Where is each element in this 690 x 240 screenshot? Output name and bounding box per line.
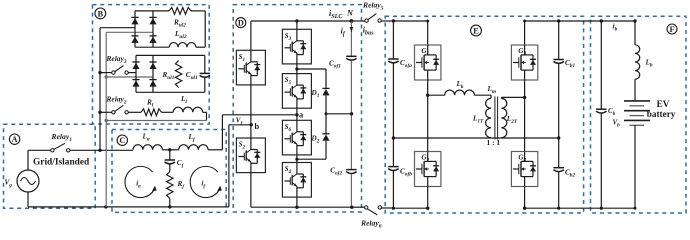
label Cb2: [565, 169, 575, 179]
wire E bottom rail secondary side (to F): [524, 207, 635, 209]
wire E top rail secondary side (to F): [524, 20, 635, 22]
wire S2 to bottom rail: [250, 173, 252, 208]
svg-text:battery: battery: [647, 109, 676, 119]
wire clamp mid to DC midpoint: [326, 113, 352, 115]
node junction clamp mid: [325, 112, 328, 115]
wire a-riser from Lf up: [221, 115, 223, 150]
wire D top rail: [251, 20, 352, 22]
wire relay2 to Rl: [128, 111, 141, 113]
label ib: [613, 22, 618, 33]
wire G1 column top: [426, 20, 429, 46]
svg-text:B: B: [98, 9, 104, 18]
capacitor Cb (battery side): [596, 109, 606, 113]
diode bridge (load 2) right branch: [149, 11, 156, 47]
wire load bus x2 (return): [105, 32, 107, 207]
region label B circled: [95, 8, 106, 19]
capacitor Cofa: [388, 59, 398, 63]
resistor Rul2: [169, 8, 191, 15]
wire F left rail lower: [600, 113, 602, 208]
label ibus: [363, 25, 374, 36]
label Vb: [613, 119, 621, 129]
wire x1 to relay3: [98, 71, 112, 74]
label Relay1: [51, 132, 73, 143]
wire E left rail mid: [392, 63, 394, 166]
wire relay6 to E bottom rail: [382, 207, 394, 209]
capacitor Cb2: [554, 168, 564, 172]
label Rl: [146, 99, 154, 109]
label Lul2: [174, 30, 187, 40]
wire relay1 to node (grid feed): [70, 149, 100, 151]
label La: [142, 133, 150, 143]
node junction bottom rail / load bus x2: [104, 205, 107, 208]
wire x2 to bridge2 lower AC terminal: [106, 31, 153, 33]
wire x1 to bridge2 upper AC terminal: [100, 27, 135, 29]
inductor Lf: [179, 145, 208, 150]
diode bridge (load 1) right branch: [149, 55, 156, 92]
svg-text:F: F: [669, 25, 674, 34]
wire b-riser from bottom rail: [228, 125, 230, 207]
node junction DC bus bottom: [350, 206, 353, 209]
capacitor Cf: [165, 150, 175, 164]
node junction DC midpoint: [350, 112, 353, 115]
wire E mid rail (winding bottoms): [393, 137, 558, 139]
wire relay5 to E top rail: [381, 20, 393, 22]
region label A circled: [9, 134, 19, 144]
transistor G4 (MOSFET box): [511, 152, 537, 187]
label Relay2: [106, 95, 127, 106]
node junction S4 bottom: [295, 206, 298, 209]
node junction top rail mid-leg: [295, 19, 298, 22]
wire Cb bus top: [557, 19, 560, 59]
label Relay5: [362, 0, 384, 11]
node N junction: [350, 19, 354, 23]
wire S1 column top: [250, 21, 252, 50]
wire clamp branch lower (D2 to S6S4 junction): [295, 143, 326, 161]
wire secondary top to right leg mid: [501, 97, 524, 98]
wire E left rail lower: [392, 171, 395, 210]
inductor Lul2: [169, 43, 196, 48]
wire G3 column top: [523, 20, 526, 46]
wire F left rail upper: [600, 21, 602, 109]
label Cof1: [329, 59, 341, 69]
diode bridge (load 2) left branch: [131, 11, 138, 47]
wire Lf to a-riser: [208, 149, 222, 151]
label Vg: [5, 179, 13, 189]
label Relay6: [360, 219, 382, 230]
transformer primary winding L1T: [486, 98, 491, 137]
capacitor Cul1: [200, 55, 210, 92]
loop current if (filter): [190, 166, 222, 197]
node junction primary leg midpoint: [426, 94, 429, 97]
wire G1 to mid node: [427, 80, 429, 152]
label Rul1: [162, 71, 175, 81]
wire Rl to Ll: [162, 111, 174, 113]
wire E top rail primary side: [393, 20, 427, 22]
region box D (5L-ANPC converter) dashed border: [233, 5, 361, 212]
wire bridge2 bottom rail: [135, 46, 205, 48]
wire bridge1 bottom rail: [136, 91, 205, 93]
wire S6-S4 junction: [296, 155, 298, 163]
svg-text:A: A: [12, 135, 18, 144]
diode D1: [322, 88, 329, 113]
wire Rul2 to right edge: [191, 11, 205, 47]
label Lm: [487, 85, 497, 95]
node junction secondary leg midpoint: [523, 96, 526, 99]
wire DC bus lower (Cof2 to bottom rail): [350, 174, 352, 207]
wire b-line to node b: [229, 124, 251, 126]
label D2: [311, 135, 320, 145]
battery EV (cells): [624, 101, 650, 125]
svg-text:EV: EV: [657, 99, 670, 109]
wire relay3 to bridge1 upper AC terminal: [128, 72, 136, 74]
label node b: [255, 122, 260, 131]
label Lk: [456, 80, 464, 90]
label node N: [346, 8, 354, 17]
label D1: [311, 89, 320, 99]
svg-text:1 : 1: 1 : 1: [487, 138, 501, 147]
region box A (grid) dashed border: [4, 124, 96, 208]
wire load bus x1 (live): [99, 28, 101, 151]
label Lb: [645, 59, 653, 69]
wire S4 to bottom rail: [296, 197, 298, 207]
transistor G1 (MOSFET box): [415, 45, 441, 80]
region box E (DAB converter) dashed border: [385, 16, 583, 213]
wire battery to bottom rail: [634, 125, 636, 208]
inductor Lk: [445, 90, 475, 95]
wire Vg bottom to bottom rail: [27, 192, 29, 207]
label Rf: [177, 180, 186, 190]
label Ll: [180, 95, 187, 105]
wire primary bottom: [490, 137, 492, 139]
label iSLC: [329, 9, 343, 20]
source Vg (grid AC source): [17, 170, 39, 192]
relay Relay3 switch: [112, 66, 129, 75]
inductor La: [133, 145, 162, 150]
wire Cb bus mid: [558, 64, 560, 168]
capacitor Cof1: [346, 56, 356, 60]
label Cb1: [565, 59, 575, 69]
transistor S1 (IGBT box): [236, 50, 265, 85]
wire bridge1 top rail: [136, 54, 205, 56]
wire a-line to node a: [222, 114, 297, 116]
relay Relay6 switch: [365, 206, 382, 215]
label Cof2: [330, 167, 342, 177]
region box F (EV battery) dashed border: [591, 16, 687, 213]
wire Ll corner to return: [106, 112, 206, 120]
label Cofb: [400, 167, 412, 177]
node a junction: [295, 113, 298, 116]
label if (bus current): [341, 26, 346, 37]
label Rul2: [173, 19, 186, 29]
svg-text:N: N: [346, 8, 354, 17]
transistor S3 (IGBT box): [282, 29, 311, 64]
label Relay3: [106, 54, 127, 65]
label Vf: [236, 116, 244, 126]
label L2T: [506, 115, 518, 125]
transistor S4 (IGBT box): [282, 163, 311, 198]
node junction E top-left corner: [392, 19, 395, 22]
wire E bottom rail primary side: [393, 207, 428, 209]
wire La to Cf node: [162, 149, 169, 151]
label EV battery: [647, 99, 676, 119]
wire N to relay5: [351, 20, 365, 22]
wire G4 to bottom rail: [523, 187, 526, 210]
loop current ia: [125, 166, 157, 197]
relay Relay2 switch: [112, 105, 129, 114]
wire DC bus mid (Cof1 to Cof2): [350, 61, 352, 170]
region label E circled: [471, 25, 482, 36]
label Grid/Islanded: [33, 157, 90, 167]
wire Cb bus bottom: [557, 172, 560, 210]
wire bridge2 top rail: [135, 10, 169, 12]
svg-text:Grid/Islanded: Grid/Islanded: [33, 157, 90, 167]
node junction E left midpoint: [392, 136, 395, 139]
wire S1 to node b column: [250, 85, 252, 138]
diode D2: [322, 114, 329, 143]
transistor S6 (IGBT box): [282, 120, 311, 155]
wire G2 to bottom rail: [426, 187, 429, 210]
node junction x2 return row3: [105, 119, 108, 122]
resistor Rul1: [175, 61, 181, 88]
wire x1 to relay2: [98, 111, 112, 114]
capacitor Cb1: [554, 60, 564, 64]
wire clamp branch upper (S3S5 junction to D1): [295, 67, 326, 88]
wire DC bus upper (N to Cof1): [350, 21, 352, 56]
region label D circled: [236, 18, 246, 28]
wire Lb to battery: [634, 79, 636, 101]
wire G3 to mid node: [524, 80, 526, 152]
region box C (filter) dashed border: [112, 130, 226, 213]
node junction F bottom rail: [600, 207, 637, 210]
relay Relay1 switch: [51, 143, 70, 152]
wire Vg top to relay1: [28, 150, 52, 170]
wire secondary bottom: [500, 137, 502, 139]
svg-text:C: C: [119, 136, 125, 145]
resistor Rf: [167, 164, 173, 207]
wire D bottom rail: [251, 206, 352, 208]
transformer secondary winding L2T: [501, 98, 506, 137]
svg-text:b: b: [255, 122, 260, 131]
transformer core: [495, 97, 498, 140]
diode bridge (load 1) left branch: [132, 55, 139, 92]
node b junction: [250, 123, 253, 126]
wire Lk to primary: [474, 95, 491, 98]
region box B (loads) dashed border: [93, 5, 210, 124]
wire S5 to node a: [296, 108, 298, 120]
node junction Rf bottom rail: [168, 205, 171, 208]
wire x2 to bridge1 lower AC terminal: [105, 75, 154, 78]
label turns ratio 1:1: [487, 138, 501, 147]
wire E left rail upper: [392, 21, 394, 59]
transistor G2 (MOSFET box): [415, 152, 441, 187]
region label F circled: [667, 24, 677, 34]
svg-text:E: E: [473, 26, 479, 35]
region label C circled: [117, 135, 127, 145]
wire grid live into filter C: [100, 149, 133, 151]
transistor S5 (IGBT box): [282, 74, 311, 109]
arrow if down: [350, 27, 353, 32]
wire relay6 from D bottom rail: [352, 206, 365, 208]
node junction filter mid: [168, 148, 171, 151]
node junction Cb midpoint: [557, 136, 560, 139]
capacitor Cof2: [346, 170, 356, 174]
label node a: [299, 111, 304, 120]
wire Cf node to Lf: [170, 149, 179, 151]
inductor Ll: [173, 107, 202, 112]
resistor Rl: [141, 109, 162, 116]
label Cf: [177, 159, 185, 169]
label Cofa: [400, 59, 412, 69]
transistor S2 (IGBT box): [236, 138, 265, 173]
inductor Lb: [635, 45, 640, 79]
label Cb: [608, 107, 616, 117]
wire mid-leg top: [296, 21, 298, 29]
label L1T: [472, 114, 484, 124]
capacitor Cofb: [388, 167, 398, 171]
label Cul1: [186, 71, 198, 81]
node junction F left rail top: [600, 19, 603, 22]
svg-text:D: D: [238, 19, 244, 28]
node junction grid wire / load bus x1: [98, 149, 101, 152]
relay Relay5 switch: [365, 14, 382, 23]
wire Lb branch top: [633, 19, 636, 45]
wire leg mid to Lk: [428, 94, 445, 96]
wire bottom return rail (A through C to node b riser): [28, 206, 229, 208]
wire S3-S5 junction: [296, 64, 298, 74]
label Lf: [188, 133, 196, 143]
transistor G3 (MOSFET box): [511, 45, 537, 80]
